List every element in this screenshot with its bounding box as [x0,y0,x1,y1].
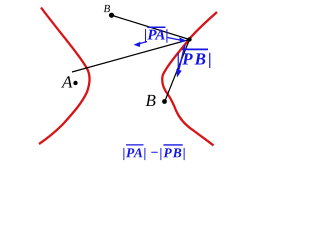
svg-text:B: B [104,3,111,15]
segment P to point B (right) [166,40,190,100]
svg-text:−: − [150,146,158,161]
blue arrow from |PA| label to segment P-A [139,42,147,44]
svg-text:A: A [61,72,73,91]
svg-text:|PB|: |PB| [177,50,214,69]
blue arrow from |PB| label down to segment P-B [179,45,186,71]
top point B dot [109,13,114,18]
segment P to top point B [113,16,190,40]
svg-text:|PA|: |PA| [122,145,147,160]
point P dot [187,37,191,41]
blue arrow from |PA| label right to P [168,38,182,41]
svg-text:|PA|: |PA| [144,28,169,44]
segment P to point A [72,40,190,73]
point B dot (right) [162,99,167,104]
point A dot (left) [73,81,77,85]
svg-text:|PB|: |PB| [159,145,186,160]
right hyperbola branch [162,12,217,146]
svg-text:B: B [145,91,156,110]
left hyperbola branch [39,8,90,145]
